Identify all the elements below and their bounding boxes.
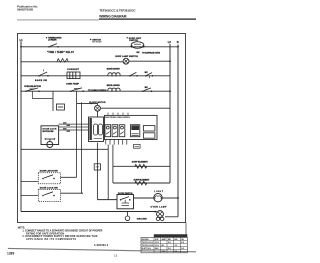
motor M2 in box A: [47, 142, 53, 148]
junction dot L1 W1: [20, 46, 22, 48]
svg-text:DOOR LATCH SW: DOOR LATCH SW: [40, 170, 59, 173]
svg-text:RH REAR: RH REAR: [92, 41, 102, 44]
svg-text:1389: 1389: [7, 251, 15, 255]
relay RB3: [119, 125, 125, 137]
svg-text:OVEN TEMP: OVEN TEMP: [66, 84, 80, 86]
svg-text:MOTOR SW: MOTOR SW: [43, 131, 54, 133]
wire frame to table edge: [185, 223, 187, 235]
wire bus to latch switch: [21, 181, 38, 183]
svg-text:L1: L1: [20, 38, 24, 42]
wire EOC drop 2: [112, 145, 114, 183]
junction dot clock: [90, 103, 92, 105]
bottom wire: [21, 211, 157, 213]
svg-text:L2: L2: [168, 40, 172, 44]
lamp DS1 oven light: [123, 58, 129, 64]
junction dot N lamp: [177, 197, 179, 199]
box D door switch: [117, 195, 134, 209]
header rule dark right: [99, 18, 196, 20]
junction dot W4 L2: [169, 90, 171, 92]
relay coil K1 bumps: [57, 59, 68, 63]
wire W5: [21, 148, 108, 150]
connector marks between A and B wire 1: [59, 123, 89, 127]
surface element wire 1: [113, 165, 170, 167]
svg-text:TEF361GCC & TEF361GGC: TEF361GCC & TEF361GGC: [99, 8, 136, 12]
dashed box switch SW-B: [38, 190, 60, 202]
receptacle J1: [156, 217, 164, 220]
wire receptacle to N: [165, 216, 178, 218]
switch S3: [129, 72, 138, 76]
switch S4: [145, 72, 154, 78]
junction dot W2 L2: [169, 60, 171, 62]
relay RB1: [105, 125, 111, 137]
svg-text:SURF ELEMENT: SURF ELEMENT: [132, 161, 149, 163]
svg-text:5-995336-2: 5-995336-2: [94, 244, 109, 247]
svg-text:AMP: AMP: [162, 238, 167, 241]
wire box D to lamp: [134, 197, 154, 199]
wire to box D: [97, 199, 117, 201]
wire W4: [21, 90, 170, 92]
footer rule: [8, 248, 196, 251]
svg-text:GROUND: GROUND: [137, 219, 147, 221]
svg-text:"TIME / TEMP" RELAY: "TIME / TEMP" RELAY: [47, 51, 74, 54]
small component P1: [125, 212, 147, 221]
wire box B drop: [96, 143, 98, 200]
svg-text:BR: BR: [145, 87, 149, 89]
wire N bus: [177, 45, 179, 217]
label S1b: [90, 39, 102, 44]
dashed box switch SW-A: [38, 173, 60, 184]
svg-text:BK: BK: [137, 52, 141, 54]
switch S2: [38, 70, 49, 77]
svg-text:BROIL 3000W: BROIL 3000W: [107, 85, 121, 87]
wire riser lock: [81, 102, 83, 193]
svg-text:BAKE SW: BAKE SW: [35, 79, 48, 82]
coil BAKE element loops: [108, 73, 120, 76]
table header fill: [154, 235, 187, 238]
wire branch x53: [52, 91, 54, 111]
svg-text:APPLIANCE OR ITS COMPONENTS: APPLIANCE OR ITS COMPONENTS: [26, 238, 76, 241]
wire riser lock x82.9 joint: [82, 192, 83, 194]
svg-text:TEF361GC: TEF361GC: [142, 242, 154, 244]
svg-text:KW: KW: [155, 239, 158, 241]
wire EOC drop 1: [107, 145, 109, 200]
EOC box U1: [105, 115, 158, 139]
table outer: [141, 237, 187, 252]
EOC pin ticks: [108, 113, 128, 115]
svg-text:13: 13: [114, 254, 118, 258]
resistor surface element 1: [135, 165, 147, 169]
fuse F1 oval: [131, 42, 145, 49]
svg-text:TEF361GG: TEF361GG: [142, 245, 154, 247]
header rule gray left: [17, 19, 99, 21]
svg-text:DOOR SWITCH: DOOR SWITCH: [118, 193, 133, 195]
wire W2b: [129, 60, 170, 62]
table cell text: [142, 238, 185, 253]
label S1: [46, 37, 62, 42]
svg-text:CURRENT: CURRENT: [67, 69, 80, 71]
component small box x57: [57, 104, 65, 110]
wire lamp to N: [162, 197, 178, 199]
svg-text:SWITCH: SWITCH: [129, 40, 138, 42]
lamp DS2 oven lamp: [154, 194, 162, 202]
diagram frame: [18, 34, 186, 223]
table grid: [141, 235, 187, 253]
svg-text:TO OVEN CONTROL: TO OVEN CONTROL: [88, 90, 108, 92]
junction dot N top: [177, 46, 179, 48]
wire W2: [21, 61, 123, 63]
wire bus to lock switch: [21, 195, 38, 197]
svg-text:LIGHT: LIGHT: [154, 191, 164, 193]
resistor surface element 2: [135, 181, 147, 185]
connector box on riser: [94, 164, 100, 170]
motor M1 clock: [95, 105, 170, 117]
connector marks between A and B wire 2: [59, 129, 89, 131]
wire latch switch to riser: [61, 176, 77, 178]
wire riser latch: [76, 96, 78, 177]
box A door lock: [41, 126, 59, 145]
EOC bottom pin stubs: [106, 140, 127, 145]
svg-text:OVEN LAMP: OVEN LAMP: [151, 206, 168, 209]
svg-text:BAKE 2600W: BAKE 2600W: [107, 67, 121, 70]
switch S1 bake: [48, 44, 59, 48]
svg-text:LH REAR: LH REAR: [48, 39, 57, 42]
surface element wire 2: [113, 182, 170, 184]
coil BROIL element loops: [108, 88, 120, 91]
svg-text:OVEN SELECTOR: OVEN SELECTOR: [24, 86, 41, 88]
wire L2 bus: [169, 44, 171, 183]
svg-text:BK: BK: [145, 72, 149, 74]
relay RB2: [112, 125, 118, 137]
wire S6 stem to clock: [77, 103, 98, 105]
svg-text:SURF ELEMENT: SURF ELEMENT: [134, 180, 151, 182]
svg-text:5995276395: 5995276395: [17, 8, 33, 12]
wire lock switch to riser: [61, 192, 83, 194]
wire L1 bus: [20, 42, 22, 212]
relay RB4: [131, 125, 140, 137]
box B connector block: [89, 117, 104, 142]
fuse box FB1: [67, 72, 80, 79]
lamp DS3 lower: [157, 211, 164, 218]
svg-text:WIRING DIAGRAM: WIRING DIAGRAM: [99, 15, 127, 19]
wire W1 top: [21, 46, 178, 48]
switch S6 T-bar: [70, 88, 84, 96]
svg-text:TO SURFACE UNITS: TO SURFACE UNITS: [142, 51, 161, 54]
svg-text:DOOR LOCK SW: DOOR LOCK SW: [40, 187, 59, 189]
svg-text:ELECTRONIC OVEN CONTROL: ELECTRONIC OVEN CONTROL: [105, 117, 131, 119]
svg-text:SURF LAMP SWITCH: SURF LAMP SWITCH: [115, 55, 138, 58]
svg-text:CLOCK MOTOR: CLOCK MOTOR: [89, 102, 106, 104]
svg-text:MODEL: MODEL: [142, 239, 150, 241]
svg-text:RATING: RATING: [142, 247, 151, 250]
label below EOC: [134, 144, 141, 148]
wire W3: [21, 75, 170, 77]
switch S5: [25, 88, 53, 99]
transformer T1: [143, 126, 155, 139]
svg-text:N: N: [177, 40, 179, 44]
label F1: [127, 37, 142, 42]
switch S7: [142, 87, 152, 92]
